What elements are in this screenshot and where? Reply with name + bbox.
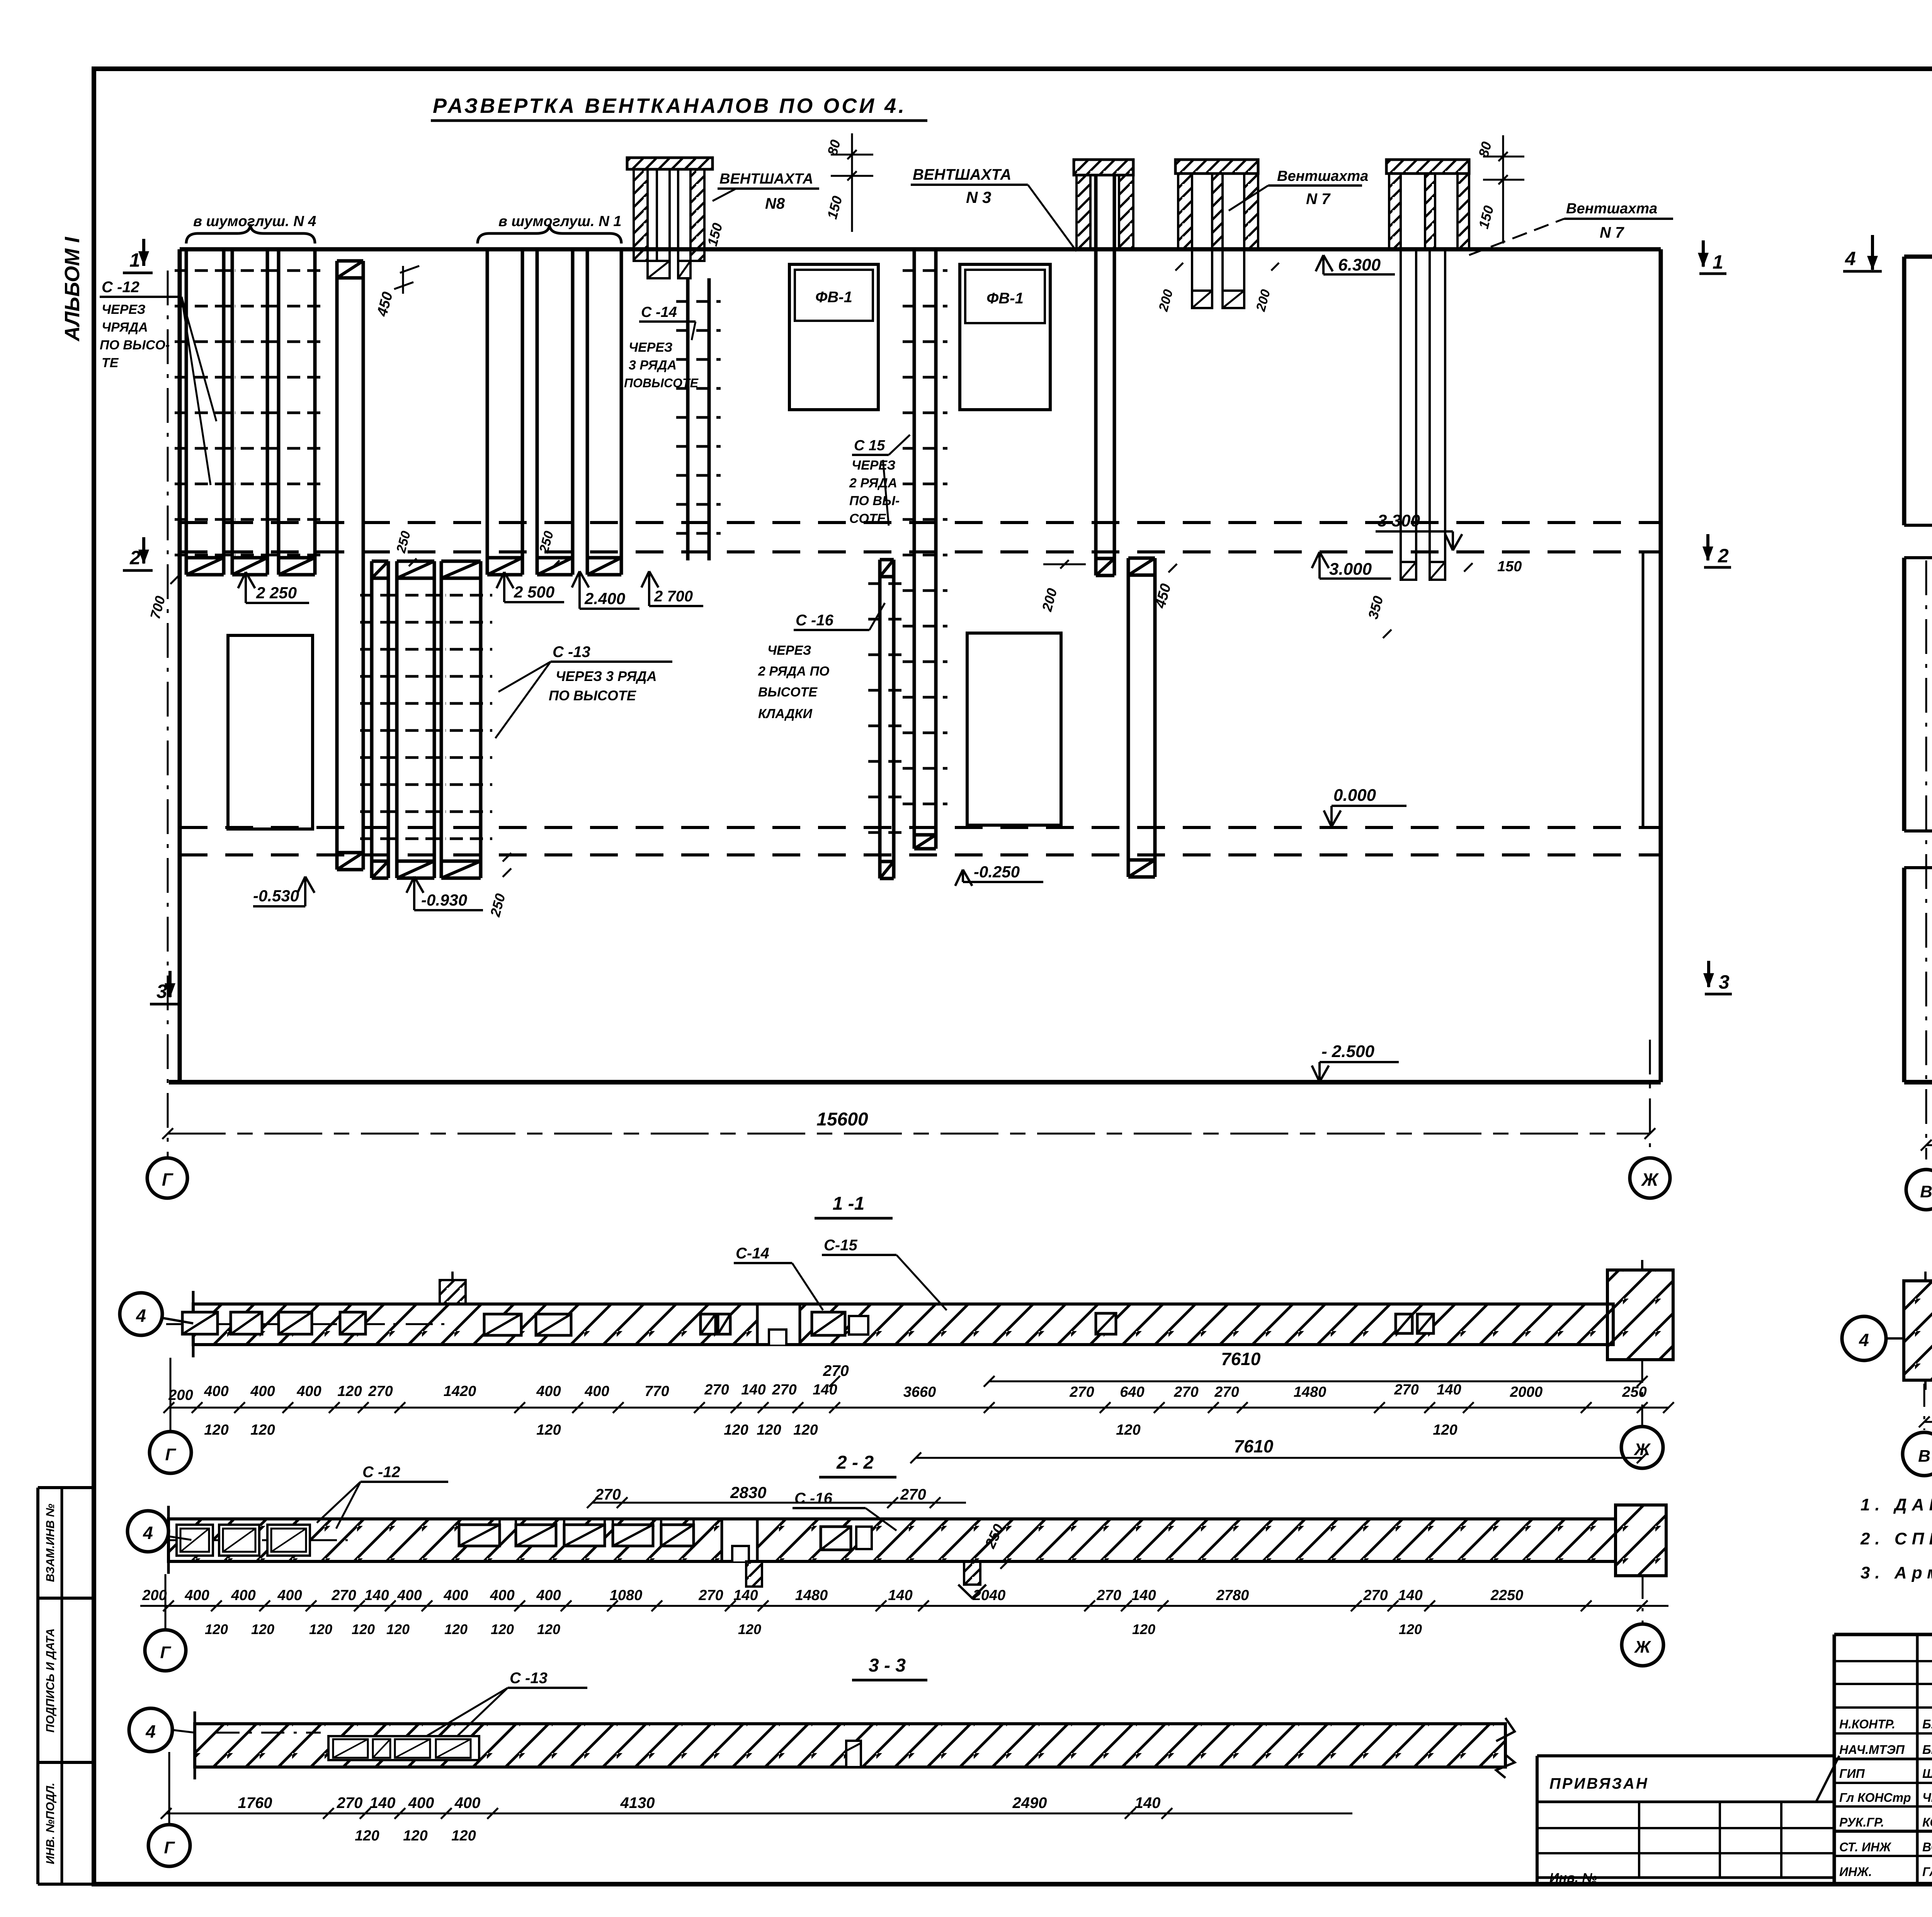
- level 2.500: [497, 572, 564, 602]
- svg-text:ВЕНТШАХТА: ВЕНТШАХТА: [719, 171, 813, 187]
- svg-text:4: 4: [143, 1523, 153, 1543]
- svg-text:120: 120: [1433, 1422, 1457, 1438]
- level 2.400: [572, 571, 639, 609]
- axis circle Г below section 3-3: [148, 1752, 190, 1866]
- svg-text:7610: 7610: [1234, 1436, 1274, 1456]
- svg-text:N8: N8: [765, 195, 785, 212]
- level -0.250: [955, 863, 1043, 886]
- svg-text:N 3: N 3: [966, 188, 991, 206]
- rotated dim 700: [147, 575, 179, 621]
- svg-text:120: 120: [1116, 1422, 1140, 1438]
- svg-text:140: 140: [370, 1794, 396, 1811]
- lower window opening mid: [967, 633, 1061, 825]
- svg-text:270: 270: [704, 1382, 729, 1398]
- svg-text:270: 270: [331, 1587, 356, 1604]
- svg-text:400: 400: [536, 1383, 561, 1399]
- svg-text:ИНЖ.: ИНЖ.: [1839, 1865, 1872, 1879]
- left drawing title: [431, 94, 927, 121]
- level 2 250 below group A: [238, 572, 309, 603]
- section 3-3 wall bar: [195, 1711, 1515, 1779]
- svg-text:640: 640: [1120, 1384, 1144, 1400]
- section title 3-3: [852, 1655, 927, 1680]
- dim 6600: [1921, 1116, 1932, 1151]
- svg-text:С-14: С-14: [736, 1245, 769, 1262]
- label C-16 with notes: [758, 603, 885, 721]
- svg-text:ЧЕРЕЗ: ЧЕРЕЗ: [102, 302, 146, 317]
- svg-text:РУК.ГР.: РУК.ГР.: [1839, 1815, 1884, 1829]
- svg-text:3. Арматурные Сетки См. на: 3. Арматурные Сетки См. на листе АС-73 .: [1861, 1563, 1932, 1582]
- svg-text:400: 400: [490, 1587, 514, 1604]
- svg-text:270: 270: [1069, 1384, 1094, 1400]
- svg-text:КЛАДКИ: КЛАДКИ: [758, 707, 813, 721]
- svg-text:150: 150: [1497, 558, 1522, 575]
- svg-text:БУХАРИНА: БУХАРИНА: [1922, 1717, 1932, 1731]
- section 4-4 left pillar: [1904, 1272, 1932, 1390]
- svg-text:Г: Г: [164, 1838, 175, 1857]
- svg-text:2 - 2: 2 - 2: [836, 1452, 874, 1473]
- dim 350 rotated: [1365, 594, 1391, 638]
- tall duct B: [337, 261, 363, 870]
- svg-text:6.300: 6.300: [1338, 255, 1381, 274]
- svg-text:400: 400: [454, 1794, 481, 1811]
- duct below shaft N3: [1096, 175, 1114, 575]
- left elevation floor dashed lines: [180, 523, 1661, 855]
- svg-text:ЧЕРЕЗ 3 РЯДА: ЧЕРЕЗ 3 РЯДА: [556, 668, 657, 684]
- window box FV-1 no.1: [789, 264, 878, 410]
- svg-text:N 7: N 7: [1600, 224, 1624, 241]
- svg-text:120: 120: [337, 1383, 362, 1399]
- right elevation dashed floors: [1904, 525, 1932, 868]
- svg-text:120: 120: [793, 1422, 818, 1438]
- svg-text:120: 120: [1132, 1621, 1155, 1637]
- svg-text:270: 270: [595, 1486, 621, 1503]
- svg-text:120: 120: [724, 1422, 748, 1438]
- twin vent shaft group 1: [1175, 160, 1258, 308]
- svg-text:2.400: 2.400: [584, 589, 625, 608]
- section 1-1 wall bar: [193, 1272, 1613, 1357]
- svg-text:120: 120: [537, 1621, 560, 1637]
- svg-text:2490: 2490: [1012, 1794, 1047, 1811]
- svg-text:-0.930: -0.930: [421, 891, 467, 909]
- svg-text:270: 270: [823, 1362, 849, 1379]
- svg-text:2 250: 2 250: [256, 584, 297, 602]
- dim 80/150 column near shaft N8: [824, 133, 873, 232]
- svg-text:120: 120: [250, 1422, 275, 1438]
- svg-text:2 РЯДА: 2 РЯДА: [849, 476, 897, 490]
- svg-text:Гл КОНСтр: Гл КОНСтр: [1839, 1791, 1911, 1805]
- svg-text:4: 4: [136, 1306, 146, 1326]
- svg-text:ПО ВЫСОТЕ: ПО ВЫСОТЕ: [549, 688, 636, 703]
- level 2 700: [641, 571, 703, 606]
- brace and label silencer N4: [186, 213, 316, 243]
- svg-text:140: 140: [813, 1382, 837, 1398]
- svg-text:С -16: С -16: [796, 612, 834, 629]
- svg-text:120: 120: [1399, 1621, 1422, 1637]
- svg-text:1480: 1480: [1294, 1384, 1327, 1400]
- svg-text:-0.250: -0.250: [974, 863, 1020, 881]
- C-15 duct pair: [903, 249, 947, 849]
- svg-text:400: 400: [408, 1794, 434, 1811]
- axis circle 4 section 1-1: [120, 1293, 193, 1335]
- rotated dim 250 under C: [487, 853, 511, 919]
- svg-text:270: 270: [698, 1587, 723, 1604]
- svg-text:ЧРЯДА: ЧРЯДА: [102, 320, 148, 335]
- svg-text:ГАНДЛЕВСКАЯ: ГАНДЛЕВСКАЯ: [1922, 1865, 1932, 1879]
- svg-text:15600: 15600: [816, 1109, 868, 1130]
- lower duct group C: [360, 561, 492, 878]
- svg-text:2: 2: [1718, 545, 1729, 567]
- svg-text:200: 200: [168, 1387, 193, 1403]
- svg-text:120: 120: [757, 1422, 781, 1438]
- sidebar stamp cells: [38, 1488, 94, 1884]
- axis circle Г below section 2-2: [145, 1574, 186, 1671]
- svg-text:1760: 1760: [238, 1794, 272, 1811]
- svg-text:С-15: С-15: [824, 1237, 857, 1254]
- label C-13 with notes: [495, 644, 672, 738]
- duct group A channels (to silencer N4): [175, 249, 327, 575]
- svg-text:2830: 2830: [730, 1483, 766, 1502]
- svg-text:120: 120: [205, 1621, 228, 1637]
- svg-text:4130: 4130: [620, 1794, 655, 1811]
- svg-text:1480: 1480: [795, 1587, 828, 1604]
- svg-text:Вентшахта: Вентшахта: [1566, 201, 1657, 217]
- svg-text:270: 270: [900, 1486, 926, 1503]
- svg-text:ИНВ. №ПОДЛ.: ИНВ. №ПОДЛ.: [44, 1783, 57, 1864]
- level -2.500 left elevation: [1312, 1042, 1399, 1082]
- svg-text:4: 4: [145, 1721, 156, 1742]
- axis circle 4 section 4-4: [1842, 1316, 1904, 1360]
- 200 rotated labels under twin1: [1156, 263, 1183, 313]
- section mark 2 right: [1702, 534, 1731, 567]
- section mark 4 left: [1843, 235, 1882, 271]
- svg-text:ПО ВЫСО-: ПО ВЫСО-: [100, 338, 170, 352]
- svg-text:270: 270: [1394, 1382, 1418, 1398]
- svg-text:3 РЯДА: 3 РЯДА: [629, 358, 677, 373]
- svg-text:РАЗВЕРТКА ВЕНТКАНАЛОВ ПО ОСИ 4: РАЗВЕРТКА ВЕНТКАНАЛОВ ПО ОСИ 4.: [433, 94, 906, 117]
- section 2-2 right end pillar: [1616, 1505, 1666, 1576]
- vent shaft N8: [627, 158, 713, 278]
- svg-text:3 - 3: 3 - 3: [869, 1655, 906, 1676]
- svg-text:АЛЬБОМ І: АЛЬБОМ І: [61, 237, 84, 342]
- axis circle Ж left elevation: [1630, 1158, 1670, 1198]
- svg-text:400: 400: [536, 1587, 561, 1604]
- svg-text:С -12: С -12: [362, 1464, 400, 1481]
- svg-text:4: 4: [1845, 248, 1856, 269]
- svg-text:3.000: 3.000: [1329, 560, 1372, 579]
- label Вентшахта N3: [911, 166, 1077, 251]
- svg-text:С -13: С -13: [553, 644, 590, 661]
- section 1-1 right end pillar: [1607, 1260, 1673, 1360]
- svg-text:2780: 2780: [1216, 1587, 1249, 1604]
- svg-text:400: 400: [231, 1587, 255, 1604]
- svg-text:400: 400: [397, 1587, 422, 1604]
- svg-text:в шумоглуш. N 4: в шумоглуш. N 4: [193, 213, 316, 230]
- axis circle Г left elevation: [147, 1158, 187, 1198]
- level -0.530: [253, 877, 315, 906]
- axis circle В: [1906, 1170, 1932, 1210]
- section mark 1 left: [123, 239, 153, 273]
- svg-text:Вентшахта: Вентшахта: [1277, 168, 1368, 184]
- svg-text:-0.530: -0.530: [253, 887, 299, 905]
- axis circle 4 section 2-2: [128, 1511, 193, 1552]
- svg-text:В: В: [1918, 1447, 1930, 1466]
- window box FV-1 no.2: [960, 264, 1050, 410]
- section 1-1 duct openings: [182, 1304, 1434, 1345]
- section title 1-1: [815, 1193, 893, 1218]
- level 3.000 left elevation: [1312, 552, 1391, 579]
- left elevation wall outline: [169, 249, 1661, 1082]
- svg-text:Г: Г: [165, 1445, 176, 1464]
- svg-text:Г: Г: [162, 1170, 173, 1190]
- rotated dim 450 duct B: [374, 266, 419, 318]
- section 2-2 wall bar: [168, 1506, 1616, 1574]
- svg-text:N 7: N 7: [1306, 191, 1331, 208]
- label C-14 section: [734, 1245, 823, 1310]
- axis dash line through section 2-2 bar: [166, 1539, 348, 1541]
- svg-text:140: 140: [1437, 1382, 1461, 1398]
- svg-text:Ж: Ж: [1634, 1440, 1651, 1459]
- svg-text:400: 400: [296, 1383, 321, 1399]
- section title 2-2: [819, 1452, 896, 1477]
- svg-text:3660: 3660: [903, 1384, 936, 1400]
- section 2-2 top dims 270 2830 C-16 270: [587, 1483, 966, 1531]
- svg-text:400: 400: [250, 1383, 275, 1399]
- right wall inset line: [1643, 552, 1661, 827]
- svg-text:120: 120: [355, 1828, 379, 1844]
- svg-text:140: 140: [888, 1587, 912, 1604]
- section mark 2 left: [123, 537, 153, 570]
- svg-text:КОЛУШЕВА: КОЛУШЕВА: [1922, 1815, 1932, 1829]
- svg-text:ЧЕРЕЗ: ЧЕРЕЗ: [852, 458, 896, 473]
- section mark 1 right: [1698, 240, 1726, 274]
- svg-text:Н.КОНТР.: Н.КОНТР.: [1839, 1717, 1895, 1731]
- label C-12 section: [317, 1464, 448, 1529]
- svg-text:СОТЕ: СОТЕ: [849, 511, 886, 526]
- svg-text:ВЗАМ.ИНВ №: ВЗАМ.ИНВ №: [44, 1504, 57, 1582]
- svg-text:ТЕ: ТЕ: [102, 356, 119, 370]
- svg-text:7610: 7610: [1221, 1349, 1261, 1369]
- svg-text:2 500: 2 500: [514, 583, 554, 601]
- svg-text:270: 270: [1363, 1587, 1388, 1604]
- title block main frame: [1834, 1634, 1932, 1884]
- section 2-2 duct openings: [177, 1519, 986, 1598]
- svg-text:ЧЕРНЕЦКИЙ: ЧЕРНЕЦКИЙ: [1922, 1791, 1932, 1805]
- svg-text:400: 400: [204, 1383, 228, 1399]
- svg-text:БЕГАНСКАЯ: БЕГАНСКАЯ: [1922, 1743, 1932, 1757]
- svg-text:3: 3: [1719, 971, 1730, 993]
- label C-14 with notes: [624, 304, 699, 390]
- svg-text:270: 270: [337, 1794, 363, 1811]
- axis circle 4 section 3-3: [129, 1708, 195, 1752]
- axis dash line through section 1-1 bar: [166, 1323, 444, 1325]
- section 3-3 duct openings: [328, 1736, 861, 1767]
- svg-text:200: 200: [142, 1587, 167, 1604]
- level 0.000 left elevation: [1324, 786, 1406, 827]
- svg-text:120: 120: [491, 1621, 514, 1637]
- axis Ж line right: [1649, 1040, 1651, 1156]
- svg-text:ШЕЛЕВИНАЯ: ШЕЛЕВИНАЯ: [1922, 1767, 1932, 1781]
- dim 80/150 column near twin2: [1475, 135, 1524, 243]
- lower duct column at 2.3m: [868, 560, 905, 878]
- svg-text:120: 120: [204, 1422, 228, 1438]
- svg-text:С -12: С -12: [102, 279, 139, 296]
- svg-text:ВЫСОТЕ: ВЫСОТЕ: [758, 685, 818, 700]
- svg-text:400: 400: [184, 1587, 209, 1604]
- level 3.300 left elevation: [1376, 511, 1462, 550]
- svg-text:ФВ-1: ФВ-1: [986, 290, 1024, 307]
- svg-text:в шумоглуш. N 1: в шумоглуш. N 1: [498, 213, 621, 230]
- svg-text:140: 140: [1135, 1794, 1161, 1811]
- svg-text:ЧЕРЕЗ: ЧЕРЕЗ: [767, 643, 811, 658]
- svg-text:120: 120: [309, 1621, 332, 1637]
- section 3-3 dimension chain: [161, 1794, 1352, 1844]
- svg-text:120: 120: [403, 1828, 427, 1844]
- svg-text:Ж: Ж: [1641, 1170, 1659, 1190]
- notes list: [1537, 1495, 1932, 1885]
- svg-text:120: 120: [251, 1621, 274, 1637]
- section 2-2 overall dim 7610: [910, 1436, 1648, 1463]
- svg-text:140: 140: [1398, 1587, 1422, 1604]
- svg-text:2 700: 2 700: [654, 588, 693, 605]
- svg-text:120: 120: [352, 1621, 375, 1637]
- twin vent shaft group 2: [1386, 160, 1469, 580]
- svg-text:400: 400: [443, 1587, 468, 1604]
- label Вентшахта N7 (first): [1229, 168, 1368, 211]
- section 2-2 dimension chain: [140, 1587, 1668, 1637]
- rotated 250 marks group D: [393, 529, 417, 566]
- svg-text:2000: 2000: [1510, 1384, 1543, 1400]
- label C-12 with notes: [100, 279, 216, 485]
- svg-text:2040: 2040: [973, 1587, 1006, 1604]
- label Вентшахта N7 (second): [1469, 201, 1673, 255]
- svg-text:270: 270: [1173, 1384, 1198, 1400]
- axis circle Ж section 1-1: [1621, 1360, 1663, 1468]
- svg-text:1420: 1420: [444, 1383, 476, 1399]
- section 1-1 overall dim 7610: [823, 1349, 1648, 1387]
- svg-text:С 15: С 15: [854, 438, 885, 454]
- rotated 450 right of it: [1152, 564, 1177, 610]
- svg-text:4: 4: [1859, 1330, 1869, 1350]
- svg-text:С -16: С -16: [794, 1490, 833, 1507]
- window opening lower-left: [228, 635, 313, 829]
- rotated 250 mark on 2-2: [982, 1522, 1009, 1569]
- C-14 ticked duct below shaft8: [676, 278, 721, 560]
- svg-text:1: 1: [129, 249, 140, 271]
- svg-text:270: 270: [1214, 1384, 1239, 1400]
- svg-text:Г: Г: [160, 1643, 171, 1662]
- section 1-1 dimension chain: [163, 1382, 1674, 1438]
- svg-text:140: 140: [741, 1382, 765, 1398]
- section 4-4 dim 3580 270 270: [1919, 1391, 1932, 1452]
- svg-text:3 300: 3 300: [1378, 511, 1420, 530]
- svg-text:В: В: [1920, 1182, 1932, 1201]
- right elevation wall outline: [1904, 257, 1932, 1082]
- svg-text:400: 400: [584, 1383, 609, 1399]
- dim 200 below shaft3 duct: [1039, 560, 1086, 613]
- axis Г line left: [167, 271, 169, 1158]
- svg-text:120: 120: [451, 1828, 476, 1844]
- svg-text:0.000: 0.000: [1333, 786, 1376, 805]
- svg-text:1 -1: 1 -1: [833, 1193, 865, 1214]
- svg-text:С -14: С -14: [641, 304, 677, 320]
- svg-text:1. ДАННЫЙ ЛИСТ СМОТРЕТЬ СО: 1. ДАННЫЙ ЛИСТ СМОТРЕТЬ СОВМЕСТНО С ЛИСТ…: [1861, 1495, 1932, 1514]
- svg-text:Инв. №: Инв. №: [1549, 1871, 1597, 1885]
- svg-text:120: 120: [536, 1422, 561, 1438]
- svg-text:ГИП: ГИП: [1839, 1767, 1865, 1781]
- svg-text:Ж: Ж: [1634, 1638, 1651, 1657]
- svg-text:ВЕНТШАХТА: ВЕНТШАХТА: [913, 166, 1011, 183]
- level 6.300 left elevation: [1316, 255, 1395, 274]
- label Вентшахта N8: [713, 171, 819, 212]
- title block texts: [1839, 1667, 1932, 1885]
- svg-text:ПО ВЫ-: ПО ВЫ-: [849, 494, 900, 508]
- svg-text:НАЧ.МТЭП: НАЧ.МТЭП: [1839, 1743, 1905, 1757]
- label C-15 section: [822, 1237, 947, 1310]
- svg-text:ВОЛЬФОГНОК: ВОЛЬФОГНОК: [1922, 1840, 1932, 1854]
- svg-text:140: 140: [364, 1587, 389, 1604]
- svg-text:1: 1: [1713, 251, 1723, 273]
- vent shaft N3: [1074, 160, 1133, 249]
- svg-text:1080: 1080: [610, 1587, 643, 1604]
- svg-text:770: 770: [645, 1383, 669, 1399]
- svg-text:270: 270: [1096, 1587, 1121, 1604]
- svg-text:ФВ-1: ФВ-1: [815, 289, 852, 306]
- svg-text:120: 120: [444, 1621, 468, 1637]
- svg-text:2250: 2250: [1490, 1587, 1524, 1604]
- svg-text:140: 140: [733, 1587, 758, 1604]
- axis В line: [1925, 560, 1927, 1159]
- axis circle Ж section 2-2: [1622, 1576, 1663, 1666]
- svg-text:120: 120: [738, 1621, 761, 1637]
- svg-text:120: 120: [386, 1621, 410, 1637]
- svg-text:- 2.500: - 2.500: [1321, 1042, 1375, 1061]
- duct group D channels (to silencer N1): [487, 249, 621, 575]
- left attachment table: [1537, 1756, 1839, 1885]
- svg-text:ЧЕРЕЗ: ЧЕРЕЗ: [629, 340, 673, 355]
- rotated 150 right of shaft8: [704, 221, 725, 248]
- svg-text:400: 400: [277, 1587, 302, 1604]
- svg-text:2 РЯДА ПО: 2 РЯДА ПО: [758, 664, 829, 679]
- svg-text:ПОДПИСЬ И ДАТА: ПОДПИСЬ И ДАТА: [44, 1628, 57, 1733]
- lower duct column at 2.95m: [1128, 558, 1155, 877]
- svg-text:ПОВЫСОТЕ: ПОВЫСОТЕ: [624, 376, 699, 390]
- section mark 3 left: [150, 971, 179, 1004]
- svg-text:270: 270: [772, 1382, 796, 1398]
- svg-text:С -13: С -13: [510, 1670, 548, 1687]
- brace and label silencer N1: [478, 213, 621, 243]
- svg-text:СТ. ИНЖ: СТ. ИНЖ: [1839, 1840, 1892, 1854]
- label C-13 section: [421, 1670, 587, 1739]
- axis circle Г below section 1-1: [150, 1358, 191, 1473]
- dim 15600: [162, 1109, 1655, 1139]
- dim 150 near twin2 lower: [1464, 558, 1522, 575]
- label C-15 with notes: [849, 435, 910, 526]
- rotated margin label АЛЬБОМ I: [61, 237, 84, 342]
- axis В circle section 4-4: [1903, 1384, 1932, 1476]
- level -0.930: [406, 877, 483, 910]
- svg-text:270: 270: [368, 1383, 393, 1399]
- svg-text:2. СПЕЦИФИКАЦИЮ ФРАМУГ См.: 2. СПЕЦИФИКАЦИЮ ФРАМУГ См. ЛИСТ АС—58,51…: [1860, 1529, 1932, 1548]
- svg-text:140: 140: [1131, 1587, 1156, 1604]
- svg-text:ПРИВЯЗАН: ПРИВЯЗАН: [1549, 1775, 1649, 1792]
- section mark 3 right: [1703, 961, 1732, 994]
